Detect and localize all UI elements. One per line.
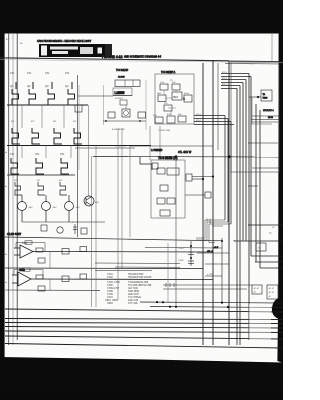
box on staircase [256,243,266,251]
parts list text [105,273,152,305]
bottom bus line 2 [5,319,283,320]
junction dots bottom [156,301,229,308]
title block body [39,44,112,57]
right bus 6 lines with labels [221,74,251,89]
junction dot [175,155,177,157]
cluster L top wide box [115,80,140,87]
top-right bus line [229,60,283,63]
row B bus [7,145,151,147]
junction dot cluster R [183,98,185,100]
wire y222 [22,221,105,223]
wires cluster to bus [192,176,213,178]
right big box outline [231,62,279,172]
second top rule [225,63,283,66]
transistor Q big [84,196,94,206]
bottom bus line 4 [5,327,283,329]
ink blob right edge [272,297,283,320]
lower cluster ics [157,168,179,216]
cap junction dots [190,245,192,247]
box right of cluster [186,174,192,181]
bottom bus line 3 [5,323,283,324]
scan border: top black band [0,0,283,34]
mid verticals [89,105,161,307]
row A bus [7,104,88,106]
top-right corner vertical [228,61,230,345]
extra parts row1 [62,249,69,255]
LED row parts [41,221,87,234]
small box left mid [75,105,82,112]
wire y195 [185,194,205,196]
long mid horizontal net [93,156,283,159]
ribbon bundle corners [196,219,231,243]
bottom bus line 5 [5,331,283,333]
transistor circles row [18,195,74,222]
junction dot right [257,96,259,98]
main vertical bus C [217,63,219,150]
cluster L outline [103,85,105,125]
A1 feedback loop [16,243,45,252]
A2 parts [36,275,43,279]
caps mid right [188,241,194,266]
left rail vertical 3 [16,33,18,340]
stub vertical top right [271,34,273,61]
short net above [130,145,213,147]
A1 resistor [36,248,43,252]
junction dot [228,155,231,158]
op-amp A1 [14,245,213,258]
cap labels [178,248,184,262]
small box at cluster entry [152,163,158,169]
net 307 long [150,307,283,308]
row C labels [10,152,65,156]
4-wire bus out of cluster R [194,116,234,225]
big rect 4TL line [145,247,222,250]
lead to IC box [249,96,261,98]
net 302 long [140,302,283,303]
wire under ic row [103,120,146,122]
parts list verticals [167,243,169,302]
right area nets [248,142,278,144]
long vertical from row A [77,75,79,237]
cluster L bold label LM555 [113,88,132,96]
A1 tie down [49,252,51,268]
net 285 right [163,284,252,286]
net y148 [75,147,135,149]
scan border: right black strip [277,33,283,363]
main vertical bus B [212,60,214,345]
box 4x5x [205,192,211,198]
right bus tiny labels [222,72,228,86]
cluster R outline [155,74,194,124]
circle labels [29,202,100,209]
inner box right [252,97,272,124]
left rail vertical 2 [12,33,14,345]
IC box U9 right [261,90,272,101]
scan border: bottom black band [0,357,283,400]
wire right mid [252,115,283,117]
A1 lower parts [38,258,45,263]
right staircase corners to edge [234,225,283,268]
main vertical bus A [202,63,204,345]
net 268 [5,267,203,270]
bottom bus line 7 [5,344,283,349]
row A labels [10,71,70,88]
net y119 right [251,119,283,121]
net 289 right [163,288,247,290]
scan fade bottom-right [249,304,271,342]
left rail vertical 1 [8,33,10,345]
rectangle right edge [221,238,223,303]
parts list rules [95,262,180,264]
title block underline (long sloped rule) [0,58,229,61]
net 237 [5,237,222,241]
bottom bus line 6 [5,336,283,339]
right stub nets [197,253,229,276]
cluster L small box [120,100,127,105]
A2 tie down [49,279,51,290]
step row D [15,182,67,195]
bottom bus line 1 [5,309,283,312]
wire right mid2 [252,121,278,123]
row B labels [11,121,78,123]
lower cluster outline [151,160,185,218]
row D labels [14,180,64,182]
net 290 [5,289,100,291]
cluster R tiny labels [153,82,189,117]
transistor row C [11,158,69,174]
transistor row B [12,128,82,144]
extra parts row2 [62,276,69,282]
transistor row A [12,82,76,105]
LM to circle lead [125,105,127,109]
cluster L ic row [108,112,115,118]
op-amp A2 [12,272,213,286]
step-down branch into cluster [140,157,152,170]
scan border: left black strip [0,33,5,367]
bottom right boxes [252,285,278,299]
cluster R ics [155,84,192,123]
cluster R wires internal [164,90,184,116]
scan noise overlay [0,0,1,1]
inter-row leads B-C [22,145,71,158]
inter-row leads A-B [22,105,64,128]
small ticks on 285 [166,283,174,287]
wire row A to cluster [78,95,113,97]
right bus verticals descending [237,74,260,346]
A2 feedback loop [14,270,43,280]
row C bus [7,174,75,176]
